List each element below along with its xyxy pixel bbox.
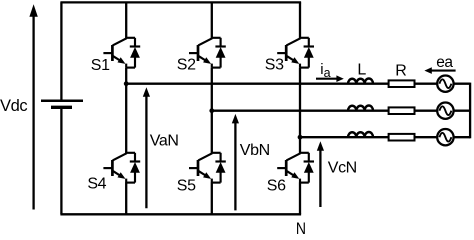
node b (phase b tap on leg 2) bbox=[209, 108, 214, 113]
transistor S5 (IGBT with antiparallel diode) bbox=[189, 153, 226, 183]
transistor S3 (IGBT with antiparallel diode) bbox=[277, 38, 314, 68]
svg-text:Vdc: Vdc bbox=[0, 97, 27, 115]
resistor phase c bbox=[389, 134, 415, 141]
current arrow ea (points left) bbox=[424, 67, 455, 74]
svg-text:S6: S6 bbox=[267, 178, 286, 195]
svg-text:L: L bbox=[357, 62, 366, 79]
AC source ea phase a bbox=[437, 76, 453, 92]
wire: phase c line right of source bbox=[453, 136, 470, 138]
wire: leg 1 upper segment bbox=[125, 2, 127, 38]
transistor S6 (IGBT with antiparallel diode) bbox=[277, 153, 314, 183]
svg-text:VbN: VbN bbox=[240, 142, 270, 159]
wire: phase c line bbox=[300, 136, 438, 138]
battery Vdc negative plate bbox=[51, 106, 72, 109]
svg-text:S4: S4 bbox=[87, 176, 106, 193]
resistor R phase a bbox=[389, 80, 415, 87]
svg-text:VaN: VaN bbox=[150, 132, 179, 149]
current arrow ia bbox=[316, 75, 344, 82]
svg-text:S1: S1 bbox=[91, 57, 110, 74]
transistor S2 (IGBT with antiparallel diode) bbox=[189, 38, 226, 68]
svg-text:VcN: VcN bbox=[328, 160, 357, 177]
wire: leg 1 lower segment bbox=[125, 182, 127, 214]
wire: leg 2 middle segment bbox=[211, 68, 213, 154]
inductor L phase a bbox=[348, 78, 373, 83]
wire: leg 3 upper segment bbox=[299, 2, 301, 38]
voltage arrow Vdc bbox=[29, 4, 37, 209]
battery Vdc positive plate bbox=[41, 99, 83, 102]
wire: neutral bus on right bbox=[469, 83, 471, 139]
wire: phase a line right of source bbox=[453, 83, 470, 85]
node c (phase c tap on leg 3) bbox=[298, 135, 303, 140]
voltage arrow VaN bbox=[143, 87, 150, 208]
wire: top DC bus bbox=[60, 1, 301, 3]
svg-text:ea: ea bbox=[436, 54, 453, 71]
inductor phase c bbox=[348, 132, 373, 137]
wire: leg 3 lower segment bbox=[299, 182, 301, 214]
voltage arrow VbN bbox=[232, 114, 239, 210]
svg-text:S5: S5 bbox=[177, 178, 196, 195]
svg-text:a: a bbox=[324, 66, 331, 80]
AC source eb phase b bbox=[437, 103, 453, 119]
voltage arrow VcN bbox=[317, 141, 324, 207]
transistor S4 (IGBT with antiparallel diode) bbox=[103, 153, 140, 183]
wire: phase b line right of source bbox=[453, 110, 470, 112]
AC source ec phase c bbox=[437, 129, 453, 145]
transistor S1 (IGBT with antiparallel diode) bbox=[103, 38, 140, 68]
wire: bottom DC bus bbox=[60, 213, 301, 215]
wire: leg 3 middle segment bbox=[299, 68, 301, 154]
wire: battery top lead bbox=[60, 2, 62, 100]
svg-text:N: N bbox=[296, 220, 306, 234]
inductor phase b bbox=[348, 106, 373, 111]
wire: leg 1 middle segment bbox=[125, 68, 127, 154]
wire: leg 2 upper segment bbox=[211, 2, 213, 38]
wire: battery bottom lead bbox=[60, 107, 62, 214]
wire: phase a line bbox=[126, 83, 437, 85]
node a (phase a tap on leg 1) bbox=[124, 81, 129, 86]
resistor phase b bbox=[389, 107, 415, 114]
wire: phase b line bbox=[212, 110, 438, 112]
wire: leg 2 lower segment bbox=[211, 182, 213, 214]
svg-text:S2: S2 bbox=[177, 57, 196, 74]
svg-text:R: R bbox=[395, 62, 406, 79]
svg-text:S3: S3 bbox=[265, 56, 284, 73]
